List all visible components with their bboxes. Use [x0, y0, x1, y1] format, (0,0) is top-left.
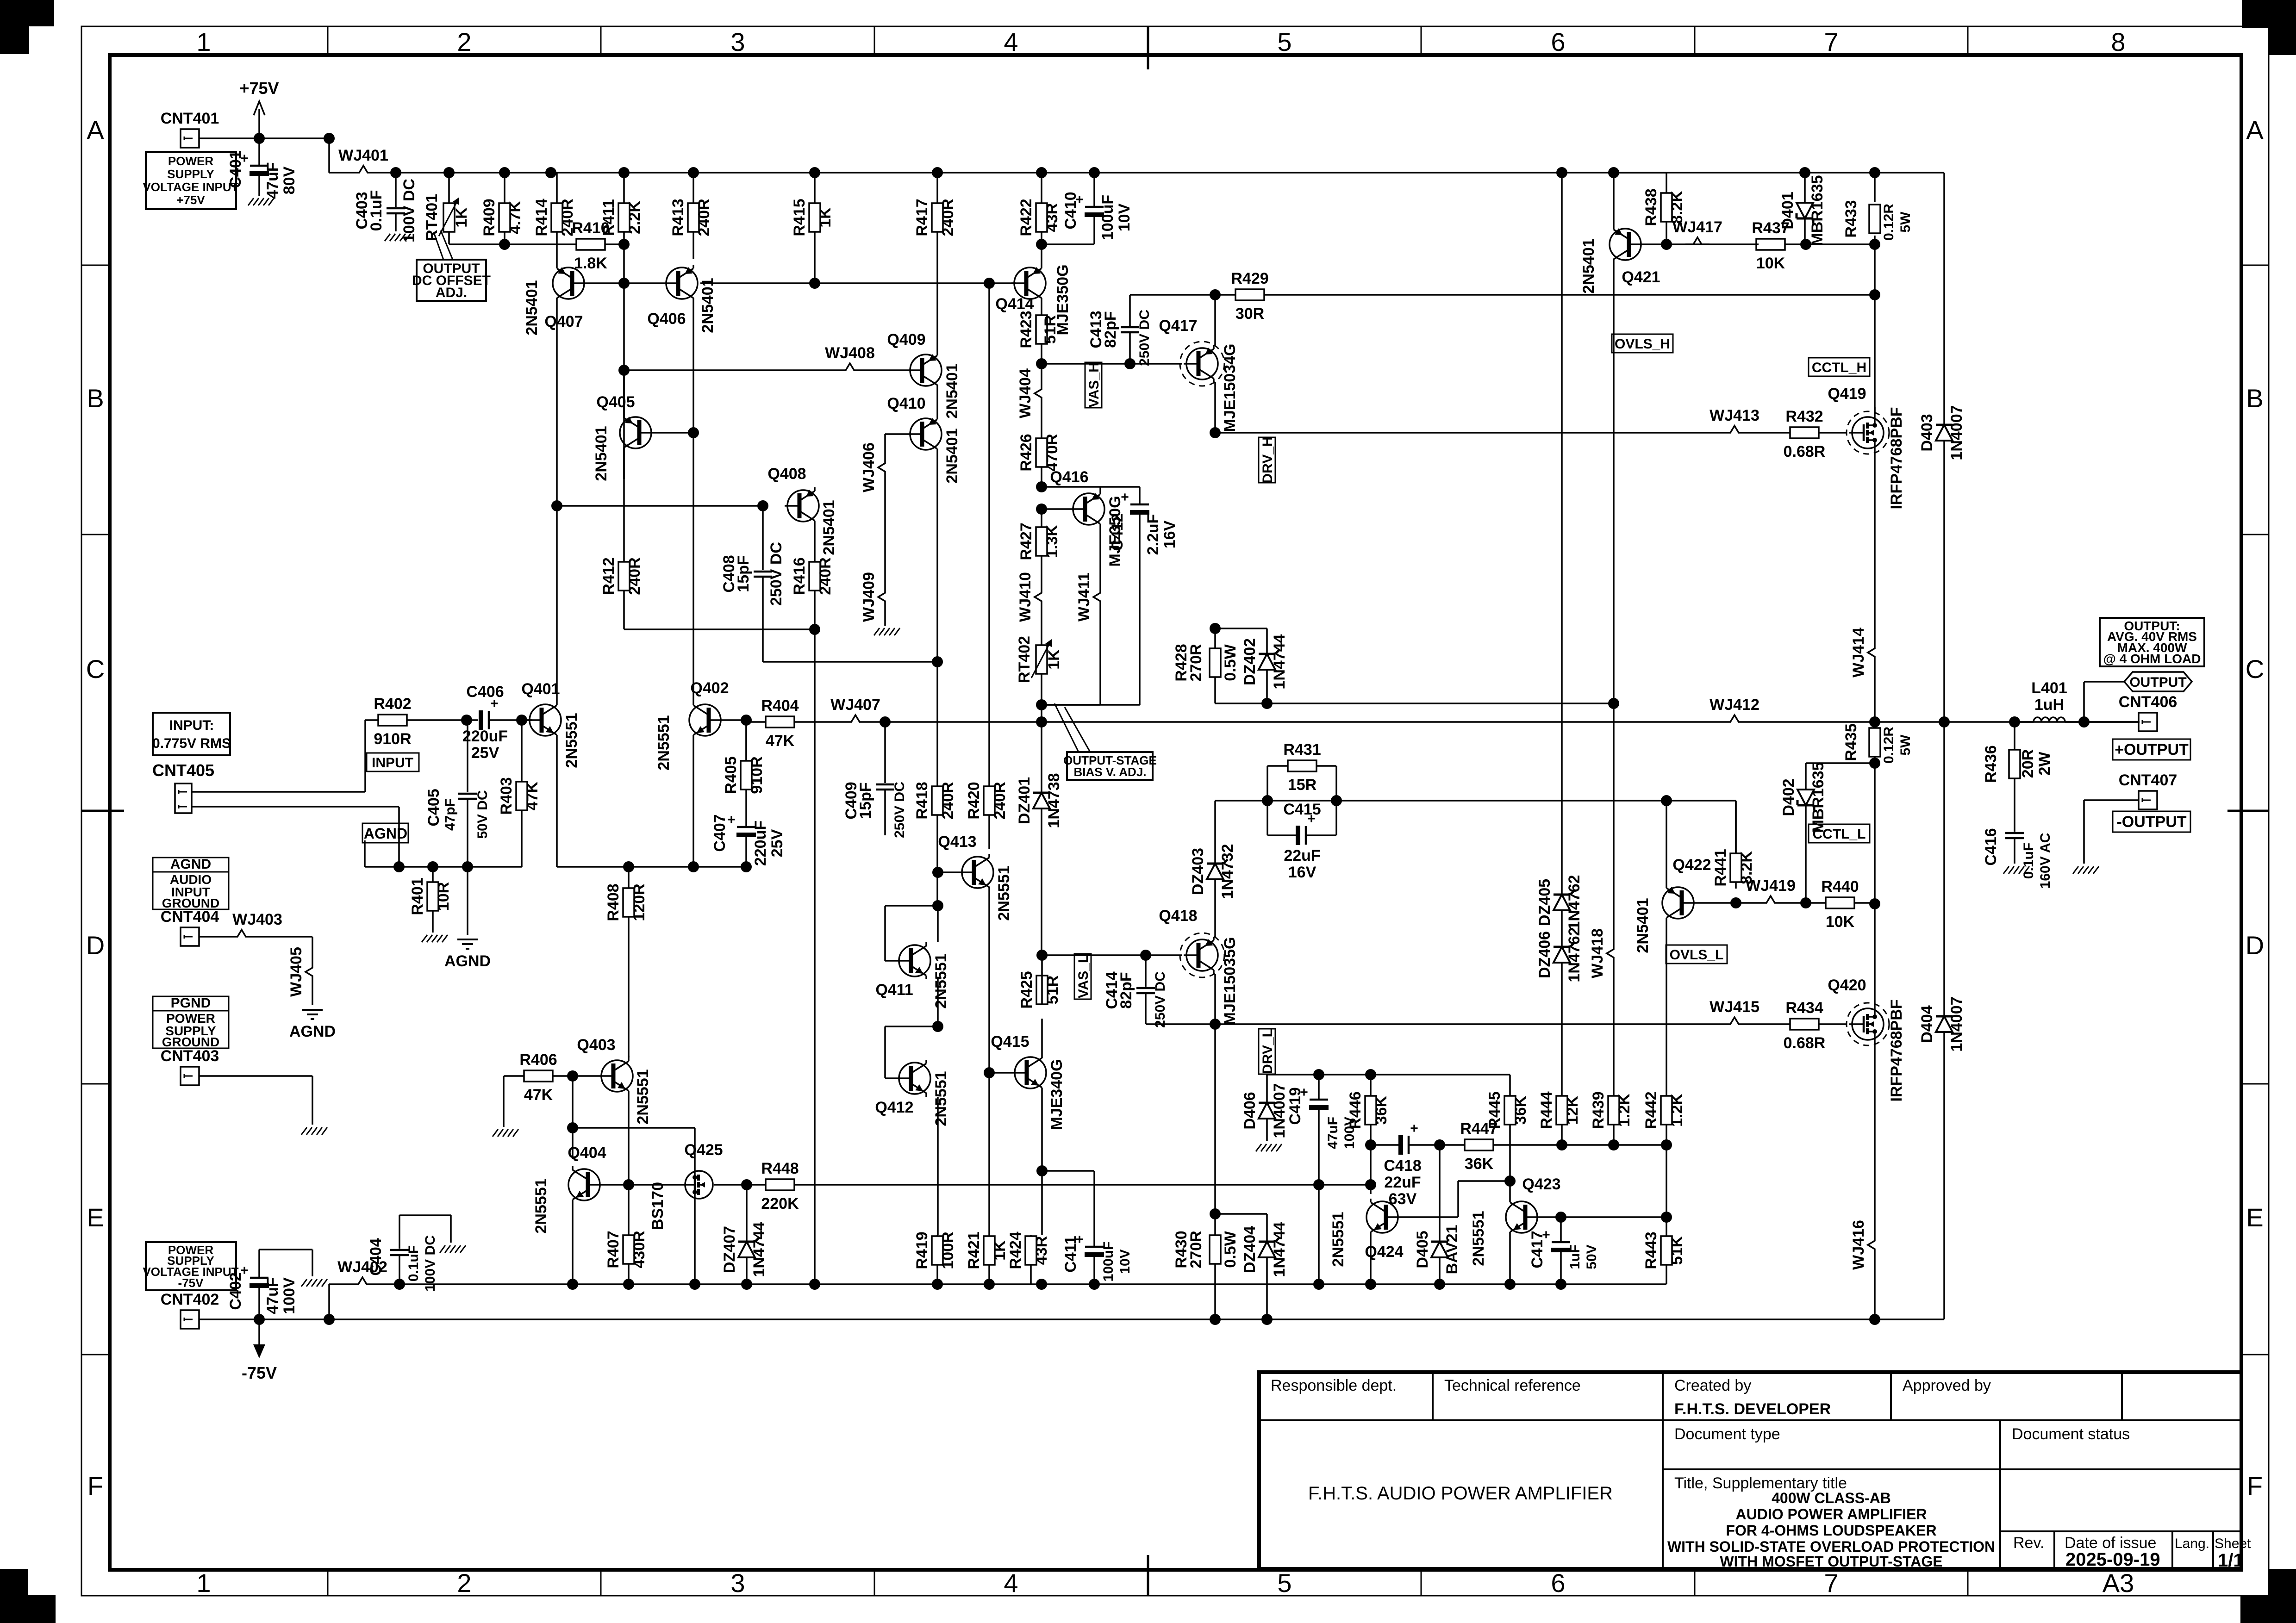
- junction +75V bus: [443, 167, 455, 178]
- resistor R412: [600, 479, 643, 629]
- svg-text:30R: 30R: [1235, 305, 1264, 323]
- wire R442 bottom drop: [1666, 1145, 1667, 1217]
- capacitor C409: [842, 722, 907, 838]
- junction input return: [393, 861, 405, 872]
- wire Q405 emitter: [623, 370, 625, 414]
- junction L401 out: [2078, 716, 2090, 728]
- diode D406: [1241, 1075, 1288, 1141]
- net label VAS_L: [1074, 954, 1091, 999]
- svg-text:-75V: -75V: [242, 1363, 277, 1382]
- svg-text:5: 5: [1277, 1568, 1291, 1598]
- svg-text:240R: 240R: [939, 782, 957, 819]
- svg-text:WJ406: WJ406: [860, 442, 878, 492]
- svg-text:Q417: Q417: [1159, 317, 1197, 335]
- svg-text:36K: 36K: [1512, 1095, 1529, 1125]
- junction R440 right: [1869, 898, 1880, 909]
- svg-text:51K: 51K: [1668, 1236, 1686, 1265]
- jumper WJ411: [1075, 572, 1100, 622]
- leader lines RT402: [1054, 703, 1090, 752]
- svg-text:2N5401: 2N5401: [943, 363, 961, 418]
- junction R442 bottom: [1661, 1139, 1672, 1150]
- wire WJ418 dn: [1613, 965, 1615, 1096]
- svg-text:2N5401: 2N5401: [593, 426, 610, 481]
- connector CNT401: [161, 110, 219, 148]
- transistor Q422: [1634, 856, 1711, 953]
- svg-text:Q423: Q423: [1522, 1175, 1560, 1193]
- svg-text:0.12R: 0.12R: [1881, 204, 1897, 241]
- svg-text:51R: 51R: [1044, 976, 1061, 1004]
- svg-text:WJ404: WJ404: [1017, 368, 1034, 418]
- junction R439 bottom: [1608, 1139, 1619, 1150]
- svg-text:43R: 43R: [1033, 1236, 1050, 1265]
- svg-text:WJ405: WJ405: [287, 947, 305, 997]
- svg-text:R429: R429: [1231, 270, 1268, 287]
- svg-text:OVLS_H: OVLS_H: [1615, 336, 1670, 352]
- wire Q414 emitter: [1041, 244, 1042, 265]
- connector CNT405: [152, 761, 214, 813]
- wire Q412 jog: [885, 1026, 938, 1078]
- wire to CNT406: [2084, 721, 2139, 723]
- ground WJ409: [874, 628, 900, 635]
- svg-text:R432: R432: [1785, 408, 1823, 425]
- wire C413 top: [1130, 295, 1215, 303]
- junction Q416 base: [1036, 504, 1047, 515]
- svg-text:Q412: Q412: [875, 1099, 913, 1116]
- node VAS_L: [1036, 950, 1048, 961]
- resistor R409: [480, 173, 524, 244]
- wire Q423 emitter: [1509, 1236, 1511, 1284]
- info box PGND: [153, 995, 229, 1049]
- svg-text:220K: 220K: [761, 1195, 799, 1213]
- transistor Q418: [1159, 907, 1239, 1025]
- svg-text:8: 8: [2111, 27, 2125, 56]
- capacitor C408: [720, 506, 785, 662]
- wire Q417 base: [1130, 363, 1182, 365]
- svg-text:1.3K: 1.3K: [1043, 525, 1061, 558]
- svg-text:BS170: BS170: [649, 1182, 667, 1230]
- title block text: [1271, 1377, 2251, 1598]
- svg-text:R431: R431: [1283, 741, 1321, 759]
- wire VAS_L: [1042, 954, 1146, 956]
- junction rail A: [689, 1279, 700, 1290]
- svg-text:Rev.: Rev.: [2013, 1534, 2044, 1552]
- svg-text:ADJ.: ADJ.: [436, 285, 467, 300]
- svg-text:R422: R422: [1017, 199, 1035, 236]
- svg-text:R433: R433: [1842, 200, 1860, 237]
- svg-text:47K: 47K: [766, 732, 795, 750]
- node R426 bottom: [1036, 481, 1047, 492]
- junction bootstrap end: [1608, 698, 1619, 709]
- svg-text:D403: D403: [1918, 414, 1936, 451]
- svg-text:Responsible dept.: Responsible dept.: [1271, 1377, 1397, 1394]
- svg-text:1N4744: 1N4744: [1271, 1222, 1288, 1277]
- svg-text:22uF: 22uF: [1384, 1174, 1421, 1191]
- svg-text:Q420: Q420: [1828, 976, 1866, 994]
- svg-text:0.775V RMS: 0.775V RMS: [152, 736, 231, 751]
- junction R429 right: [1869, 289, 1880, 300]
- svg-text:F: F: [2247, 1471, 2263, 1500]
- svg-text:R401: R401: [409, 877, 426, 915]
- wire C411 top: [1042, 1171, 1094, 1221]
- wire WJ418 column: [1613, 703, 1615, 941]
- svg-text:AUDIO POWER AMPLIFIER: AUDIO POWER AMPLIFIER: [1735, 1506, 1927, 1523]
- transistor Q405: [593, 393, 654, 481]
- svg-text:R427: R427: [1017, 522, 1035, 560]
- junction +75V bus: [499, 167, 510, 178]
- transistor Q402: [655, 679, 729, 771]
- svg-text:240R: 240R: [817, 557, 834, 595]
- junction rail A: [741, 1279, 752, 1290]
- connector CNT406: [2119, 693, 2177, 731]
- svg-text:47K: 47K: [524, 1086, 553, 1104]
- info box power supply -75V: [143, 1242, 238, 1290]
- svg-text:1N4738: 1N4738: [1045, 773, 1063, 828]
- svg-text:MJE340G: MJE340G: [1048, 1059, 1066, 1130]
- wire Q421 base line: [1644, 243, 1759, 245]
- net label AGND box: [362, 823, 408, 867]
- capacitor C410: [1062, 173, 1133, 244]
- wire Q423 base: [1540, 1216, 1666, 1218]
- svg-text:B: B: [2246, 384, 2263, 413]
- wire Q409 collector to Q410: [936, 389, 938, 416]
- wire Q413 emitter dn: [988, 891, 990, 1073]
- svg-text:VAS_H: VAS_H: [1086, 362, 1102, 408]
- node RT402 bottom: [1036, 699, 1047, 710]
- wire input signal: [192, 720, 378, 792]
- transistor Q403: [577, 1036, 652, 1125]
- svg-text:IRFP4768PBF: IRFP4768PBF: [1888, 999, 1905, 1101]
- zener DZ402: [1241, 628, 1288, 703]
- svg-text:2N5401: 2N5401: [1580, 238, 1597, 293]
- resistor R434: [1747, 999, 1847, 1052]
- wire WJ419 line: [1736, 902, 1759, 904]
- svg-text:Q403: Q403: [577, 1036, 615, 1054]
- ground C416: [2003, 866, 2029, 874]
- svg-text:0.1uF: 0.1uF: [368, 190, 385, 231]
- net label CCTL_H: [1809, 358, 1870, 376]
- capacitor C413: [1087, 303, 1152, 366]
- svg-text:10K: 10K: [1826, 913, 1855, 931]
- junction rail A: [1555, 1279, 1566, 1290]
- junction Q424 collector: [1365, 1179, 1376, 1190]
- junction +75V bus: [1036, 167, 1047, 178]
- svg-text:2: 2: [457, 1568, 471, 1598]
- diode D401: [1779, 173, 1826, 246]
- svg-text:L401: L401: [2031, 679, 2067, 697]
- junction VAS feed: [984, 278, 995, 289]
- jumper WJ418: [1589, 928, 1614, 978]
- svg-text:C412: C412: [1109, 513, 1126, 551]
- svg-text:1K: 1K: [991, 1240, 1009, 1261]
- svg-text:Q409: Q409: [887, 331, 925, 348]
- svg-text:DRV_L: DRV_L: [1260, 1029, 1275, 1074]
- wire WJ414 to out: [1874, 665, 1876, 722]
- svg-text:100V DC: 100V DC: [400, 179, 418, 243]
- svg-text:R403: R403: [498, 777, 515, 815]
- ground C403: [385, 234, 411, 241]
- transistor Q409: [887, 331, 961, 419]
- junction R435 top: [1869, 716, 1880, 728]
- zener DZ403: [1189, 801, 1236, 937]
- svg-text:DZ402: DZ402: [1241, 638, 1259, 685]
- junction C407 bottom: [741, 861, 752, 872]
- net label CCTL_L: [1809, 824, 1870, 843]
- svg-text:AGND: AGND: [289, 1023, 336, 1040]
- svg-text:R409: R409: [480, 199, 498, 236]
- svg-text:WJ413: WJ413: [1710, 407, 1759, 424]
- wire C408 bottom: [763, 661, 937, 663]
- svg-text:43R: 43R: [1043, 203, 1061, 232]
- svg-text:R426: R426: [1017, 434, 1035, 471]
- svg-text:100V DC: 100V DC: [423, 1235, 438, 1292]
- svg-text:+75V: +75V: [176, 193, 205, 207]
- wire collector rail: [572, 1128, 574, 1159]
- svg-text:DZ401: DZ401: [1016, 777, 1033, 824]
- svg-text:240R: 240R: [626, 557, 643, 595]
- junction Q404 base: [623, 1179, 634, 1190]
- junction C419 top: [1313, 1069, 1324, 1080]
- diode D402: [1780, 762, 1827, 904]
- wire AGND rail: [365, 866, 522, 868]
- net label +OUTPUT: [2113, 739, 2190, 760]
- svg-text:Approved by: Approved by: [1903, 1377, 1991, 1394]
- wire Q414 base bus: [700, 282, 1016, 284]
- wire Q411 chain: [937, 979, 939, 1026]
- svg-text:1N4744: 1N4744: [750, 1222, 768, 1277]
- svg-text:2N5551: 2N5551: [995, 865, 1013, 920]
- svg-text:470R: 470R: [1043, 434, 1061, 471]
- wire C412 bottom: [1042, 528, 1140, 705]
- svg-text:250V DC: 250V DC: [892, 782, 907, 838]
- junction D403 bottom: [1939, 716, 1950, 728]
- svg-text:4: 4: [1004, 27, 1018, 56]
- resistor R439: [1590, 1091, 1633, 1145]
- resistor R406: [504, 1051, 573, 1104]
- wire Q416 collector: [1099, 528, 1101, 585]
- jumper WJ419: [1746, 877, 1796, 903]
- wire R441 top: [1735, 801, 1737, 853]
- wire center line 1: [867, 721, 1722, 723]
- wire WJ409 to gnd: [884, 609, 886, 626]
- svg-text:47K: 47K: [524, 781, 541, 810]
- svg-text:CNT404: CNT404: [161, 908, 219, 926]
- wire Q420 source: [1874, 1043, 1876, 1233]
- svg-text:SUPPLY: SUPPLY: [167, 167, 214, 181]
- svg-text:R441: R441: [1712, 849, 1729, 886]
- resistor R437: [1752, 219, 1875, 272]
- wire VAS_H: [1042, 363, 1130, 365]
- node +75V junction: [254, 133, 265, 144]
- connector CNT403: [161, 1047, 219, 1085]
- wire R412 top: [623, 370, 625, 479]
- wire C406 to Q401: [489, 719, 532, 721]
- svg-text:MBR1635: MBR1635: [1809, 762, 1827, 833]
- svg-text:R420: R420: [965, 782, 983, 819]
- wire WJ408 to Q409: [862, 369, 907, 371]
- svg-text:AGND: AGND: [364, 825, 407, 842]
- svg-text:120R: 120R: [630, 883, 648, 921]
- info box power supply +75V: [143, 152, 238, 209]
- svg-text:A: A: [2246, 115, 2264, 144]
- svg-text:51R: 51R: [1042, 315, 1059, 344]
- svg-text:16V: 16V: [1288, 864, 1316, 881]
- svg-text:220uF: 220uF: [752, 821, 769, 866]
- svg-text:2.2uF: 2.2uF: [1144, 514, 1162, 555]
- jumper WJ415: [1710, 998, 1759, 1024]
- signal ground CNT404: [289, 1010, 336, 1040]
- info box AGND: [153, 857, 229, 910]
- svg-text:D: D: [2246, 931, 2264, 960]
- svg-text:Document status: Document status: [2012, 1425, 2130, 1443]
- svg-text:Q408: Q408: [767, 465, 806, 483]
- wire R411 junction drop: [623, 244, 625, 370]
- node Q401 collector: [551, 500, 562, 511]
- wire Q404 emitter: [572, 1203, 574, 1284]
- junction C406 left: [461, 715, 472, 726]
- svg-text:1uH: 1uH: [2034, 696, 2064, 714]
- svg-text:1.8K: 1.8K: [574, 255, 607, 272]
- wire Q403 collector up: [628, 1056, 630, 1057]
- wire Q416 base: [1042, 508, 1070, 510]
- diode D405: [1414, 1145, 1461, 1284]
- wire Q420 drain: [1874, 926, 1876, 1006]
- wire RT401 bottom rail: [449, 243, 576, 245]
- svg-text:C417: C417: [1529, 1231, 1546, 1268]
- svg-text:C415: C415: [1283, 801, 1321, 818]
- resistor R402: [374, 695, 411, 748]
- junction +75V bus: [1799, 167, 1810, 178]
- net label OVLS_H: [1612, 334, 1673, 353]
- junction C402 bottom: [254, 1314, 265, 1325]
- junction R431 right: [1331, 795, 1342, 806]
- svg-text:47pF: 47pF: [443, 798, 458, 831]
- wire R433 column: [1874, 173, 1876, 414]
- wire R406 gnd: [503, 1076, 505, 1127]
- svg-text:50V: 50V: [1584, 1244, 1599, 1269]
- wire Q413 base: [938, 871, 959, 873]
- svg-text:1N4007: 1N4007: [1948, 405, 1965, 460]
- junction C408 top: [757, 500, 768, 511]
- svg-text:R442: R442: [1642, 1091, 1660, 1129]
- resistor R405: [722, 720, 766, 820]
- diode D404: [1918, 722, 1965, 1319]
- wire R421 top: [988, 1073, 990, 1235]
- leader lines RT401: [434, 230, 453, 260]
- wire Q422 base: [1697, 902, 1736, 904]
- wire Q403 base: [573, 1075, 599, 1077]
- node Q418 collector: [1210, 1019, 1221, 1030]
- svg-text:+: +: [1121, 490, 1129, 505]
- wire Q425 source: [694, 1201, 696, 1284]
- svg-text:250V DC: 250V DC: [1153, 971, 1168, 1028]
- wire Q401 collector up: [556, 506, 558, 702]
- wire tail: [557, 866, 746, 868]
- svg-text:1: 1: [196, 27, 211, 56]
- svg-text:Q419: Q419: [1828, 385, 1866, 403]
- capacitor C414: [1103, 955, 1168, 1028]
- svg-text:A: A: [87, 115, 104, 144]
- svg-text:15pF: 15pF: [735, 555, 752, 592]
- svg-text:2N5551: 2N5551: [1329, 1212, 1347, 1267]
- wire Q404 base: [603, 1184, 629, 1186]
- resistor R436: [1982, 722, 2053, 824]
- jumper WJ408: [825, 344, 875, 370]
- junction R416 column: [809, 624, 820, 635]
- svg-text:Q416: Q416: [1050, 468, 1088, 486]
- svg-text:0.68R: 0.68R: [1784, 1034, 1826, 1052]
- capacitor C416: [1982, 824, 2053, 889]
- transistor Q408: [767, 465, 838, 555]
- transistor Q404: [532, 1144, 606, 1234]
- junction rail A: [1365, 1279, 1376, 1290]
- transistor Q421: [1580, 226, 1660, 294]
- svg-text:250V DC: 250V DC: [767, 542, 785, 606]
- junction C413 col: [1124, 358, 1136, 369]
- jumper WJ413: [1710, 407, 1759, 433]
- resistor R444: [1538, 1091, 1581, 1145]
- transistor Q417: [1159, 317, 1239, 432]
- svg-text:WJ418: WJ418: [1589, 928, 1606, 978]
- svg-text:7: 7: [1824, 1568, 1838, 1598]
- transistor Q416: [1050, 468, 1124, 567]
- wire gate wire: [629, 1184, 680, 1186]
- svg-text:15pF: 15pF: [857, 782, 874, 819]
- svg-text:R444: R444: [1538, 1091, 1555, 1129]
- wire Q423 collector: [1509, 1181, 1511, 1199]
- svg-text:R421: R421: [965, 1231, 983, 1269]
- junction R433 bottom: [1869, 239, 1880, 250]
- svg-text:AGND: AGND: [444, 952, 491, 970]
- svg-text:Created by: Created by: [1674, 1377, 1751, 1394]
- wire collector to Q408 base: [557, 505, 763, 507]
- svg-text:AGND: AGND: [170, 857, 211, 872]
- resistor R421: [965, 1231, 1009, 1284]
- wire R448 end: [1370, 1145, 1372, 1194]
- svg-text:0.5W: 0.5W: [1222, 644, 1239, 681]
- wire Q418 base: [1146, 954, 1182, 956]
- resistor R414: [533, 173, 576, 265]
- connector CNT404: [161, 908, 219, 946]
- node Q405 emitter: [618, 365, 630, 376]
- svg-text:2N5551: 2N5551: [1470, 1211, 1487, 1266]
- svg-text:2N5401: 2N5401: [699, 278, 717, 333]
- svg-text:Q418: Q418: [1159, 907, 1197, 925]
- svg-text:2N5401: 2N5401: [943, 428, 961, 483]
- svg-text:25V: 25V: [768, 829, 786, 857]
- wire R448 line: [714, 1184, 766, 1186]
- svg-text:Q413: Q413: [938, 833, 976, 851]
- svg-text:2025-09-19: 2025-09-19: [2065, 1549, 2160, 1570]
- jumper WJ401: [329, 147, 1106, 173]
- resistor R440: [1783, 878, 1875, 931]
- svg-text:R406: R406: [519, 1051, 557, 1069]
- net label OVLS_L: [1666, 945, 1727, 964]
- junction rail A: [932, 1279, 943, 1290]
- svg-text:430R: 430R: [630, 1231, 648, 1268]
- svg-text:CNT402: CNT402: [161, 1291, 219, 1308]
- resistor R423: [1017, 302, 1059, 364]
- wire bootstrap H: [1215, 703, 1614, 704]
- capacitor C404: [367, 1235, 438, 1292]
- ground CNT403: [301, 1127, 327, 1135]
- svg-text:F.H.T.S. DEVELOPER: F.H.T.S. DEVELOPER: [1674, 1400, 1831, 1418]
- svg-text:Q410: Q410: [887, 395, 925, 412]
- wire Q418 collector: [1214, 974, 1216, 1024]
- junction +75V bus: [545, 167, 556, 178]
- ground CNT407: [2073, 866, 2099, 874]
- wire Q410 base: [885, 433, 907, 435]
- wire WJ402 riser: [328, 1284, 330, 1319]
